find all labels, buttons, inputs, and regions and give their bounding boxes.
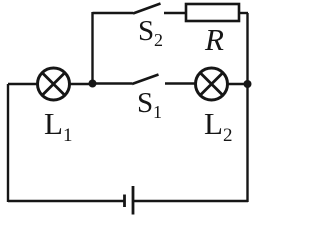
switch S1 bbox=[132, 75, 196, 85]
svg-text:L: L bbox=[204, 106, 223, 141]
label L2 bbox=[204, 106, 233, 146]
svg-text:2: 2 bbox=[154, 30, 163, 50]
wire left rail down bbox=[7, 84, 9, 202]
wire resistor to right rail bbox=[239, 12, 248, 14]
wire bottom rail to battery bbox=[8, 200, 125, 202]
junction node A bbox=[89, 80, 97, 88]
wire L1 to node A bbox=[70, 83, 93, 85]
label L1 bbox=[44, 106, 73, 146]
svg-text:1: 1 bbox=[153, 102, 162, 122]
resistor R bbox=[186, 4, 239, 21]
label R bbox=[204, 22, 224, 57]
label S1 bbox=[137, 87, 162, 122]
svg-text:S: S bbox=[137, 87, 153, 119]
switch S2 bbox=[133, 4, 185, 14]
lamp L1 bbox=[38, 68, 70, 100]
wire node A up to top rail bbox=[91, 12, 93, 84]
svg-text:R: R bbox=[204, 22, 224, 57]
lamp L2 bbox=[196, 68, 228, 100]
label S2 bbox=[138, 15, 163, 50]
wire top rail to switch S2 bbox=[93, 12, 134, 14]
junction node B bbox=[244, 80, 252, 88]
wire L2 to node B bbox=[228, 83, 248, 85]
wire node A to switch S1 bbox=[93, 82, 133, 84]
svg-text:S: S bbox=[138, 15, 154, 47]
wire left branch to L1 bbox=[8, 83, 37, 85]
svg-text:1: 1 bbox=[63, 125, 73, 146]
svg-text:L: L bbox=[44, 106, 63, 141]
battery BT1 bbox=[125, 186, 134, 215]
svg-text:2: 2 bbox=[223, 125, 233, 146]
wire right rail down bbox=[246, 13, 248, 202]
wire battery to bottom right bbox=[133, 200, 248, 202]
